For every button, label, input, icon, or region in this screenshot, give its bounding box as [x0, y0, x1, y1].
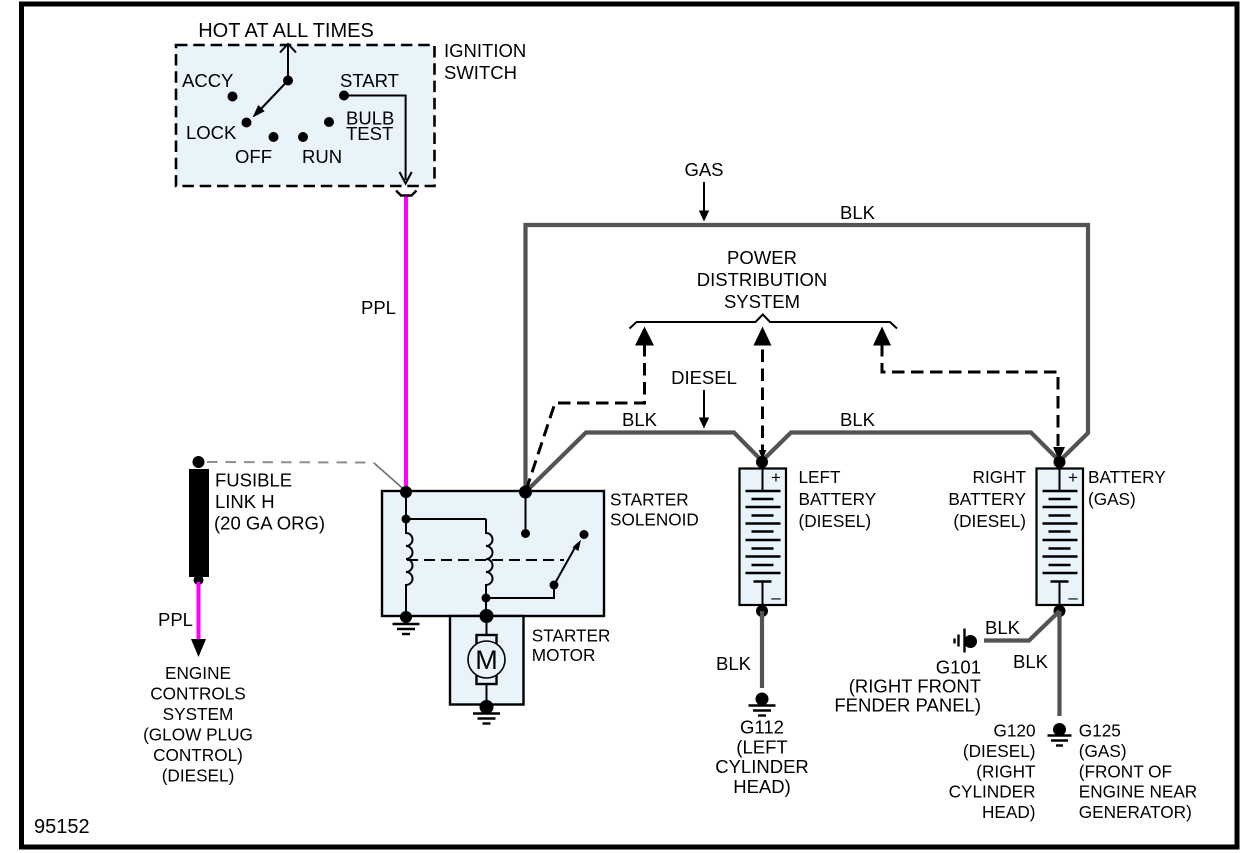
wire PPL to engine controls [197, 582, 201, 640]
svg-text:(FRONT OF: (FRONT OF [1079, 761, 1172, 781]
svg-text:BATTERY: BATTERY [799, 489, 877, 509]
svg-text:(DIESEL): (DIESEL) [953, 511, 1026, 531]
svg-text:G101: G101 [936, 657, 981, 678]
node BULB TEST [324, 117, 334, 127]
battery right gas [1037, 468, 1084, 607]
wire left battery ground [760, 611, 764, 688]
node coil junction [482, 594, 491, 603]
wire switch to motor [486, 585, 554, 598]
node START [339, 91, 349, 101]
svg-text:(GAS): (GAS) [1079, 741, 1127, 761]
svg-text:(DIESEL): (DIESEL) [162, 766, 235, 786]
svg-text:MOTOR: MOTOR [532, 645, 596, 665]
svg-text:POWER: POWER [727, 247, 797, 268]
wire dashed right battery to power distribution [873, 327, 891, 346]
svg-text:(DIESEL): (DIESEL) [799, 511, 872, 531]
node ACCY [228, 92, 238, 102]
node battery stub end [521, 529, 530, 538]
svg-text:RIGHT: RIGHT [973, 467, 1027, 487]
linkage dashed [407, 559, 564, 561]
node RUN [298, 132, 308, 142]
wire motor to ground [486, 684, 488, 704]
svg-text:IGNITION: IGNITION [444, 40, 526, 61]
svg-text:ENGINE: ENGINE [165, 663, 231, 683]
wire dashed gray link [207, 461, 374, 464]
svg-text:SOLENOID: SOLENOID [610, 510, 699, 530]
connector cup [396, 191, 417, 196]
node right battery + [1054, 456, 1066, 468]
svg-text:TEST: TEST [346, 123, 393, 144]
svg-text:CONTROL): CONTROL) [153, 745, 243, 765]
wire battery stub [525, 492, 527, 534]
svg-text:BLK: BLK [840, 202, 876, 223]
ground G125 [1053, 723, 1066, 736]
wire dashed solenoid to power distribution [635, 327, 654, 346]
node left battery + [756, 456, 768, 468]
ground G101 [964, 635, 977, 648]
wire DIESEL pointer arrow [703, 390, 705, 419]
svg-text:+: + [771, 468, 781, 487]
svg-text:BLK: BLK [716, 653, 752, 674]
motor M circle [468, 641, 505, 678]
svg-text:(RIGHT FRONT: (RIGHT FRONT [849, 676, 981, 697]
svg-text:FUSIBLE: FUSIBLE [215, 470, 292, 491]
svg-text:G120: G120 [993, 721, 1035, 741]
svg-text:BATTERY: BATTERY [948, 489, 1026, 509]
switch arm [554, 544, 577, 585]
battery left diesel [740, 468, 787, 607]
svg-text:G112: G112 [740, 717, 784, 738]
wire coil feed [405, 492, 407, 519]
svg-text:DISTRIBUTION: DISTRIBUTION [697, 269, 828, 290]
svg-text:(RIGHT: (RIGHT [976, 761, 1036, 781]
svg-text:SWITCH: SWITCH [444, 62, 517, 83]
inductor hold-in coil [486, 519, 493, 598]
wire BLK gas battery feed [526, 225, 1089, 492]
brace power distribution [630, 315, 898, 329]
svg-text:SYSTEM: SYSTEM [163, 704, 234, 724]
motor armature rect [477, 635, 497, 684]
node right battery - [1054, 605, 1066, 617]
inductor pull-in coil [406, 519, 413, 617]
svg-text:GENERATOR): GENERATOR) [1079, 802, 1192, 822]
ground G112 [756, 693, 769, 706]
svg-text:M: M [475, 645, 498, 675]
node LOCK [242, 118, 252, 128]
wire START output [344, 96, 406, 181]
svg-text:LINK H: LINK H [215, 491, 275, 512]
wire coil bridge [406, 518, 486, 520]
svg-text:FENDER PANEL): FENDER PANEL) [834, 695, 981, 716]
node left battery - [756, 605, 768, 617]
ground solenoid coil [393, 623, 420, 625]
svg-text:(LEFT: (LEFT [736, 736, 787, 757]
node coil ground [400, 611, 412, 623]
svg-text:BLK: BLK [1013, 651, 1049, 672]
node OFF [269, 132, 279, 142]
wire GAS pointer arrow [703, 182, 705, 212]
svg-text:+: + [1068, 468, 1078, 487]
svg-text:LOCK: LOCK [186, 122, 237, 143]
svg-text:SYSTEM: SYSTEM [724, 291, 800, 312]
wire dashed left battery to power distribution [754, 327, 772, 346]
svg-text:STARTER: STARTER [532, 625, 611, 645]
svg-text:CONTROLS: CONTROLS [150, 684, 246, 704]
wire PPL ignition to solenoid [404, 197, 408, 493]
svg-text:HOT AT ALL TIMES: HOT AT ALL TIMES [198, 20, 374, 42]
svg-text:BLK: BLK [985, 617, 1021, 638]
svg-text:DIESEL: DIESEL [671, 367, 737, 388]
svg-text:CYLINDER: CYLINDER [949, 782, 1036, 802]
node solenoid PPL input [400, 486, 412, 498]
svg-text:(GLOW PLUG: (GLOW PLUG [143, 725, 253, 745]
svg-text:BATTERY: BATTERY [1088, 467, 1166, 487]
svg-text:LEFT: LEFT [799, 467, 842, 487]
svg-text:STARTER: STARTER [610, 490, 689, 510]
svg-text:START: START [340, 70, 399, 91]
ignition switch box [176, 45, 435, 186]
svg-text:G125: G125 [1079, 721, 1121, 741]
svg-text:BLK: BLK [622, 409, 658, 430]
wire motor feed [486, 616, 488, 636]
svg-text:HEAD): HEAD) [733, 776, 791, 797]
svg-text:(GAS): (GAS) [1088, 489, 1136, 509]
wire switch wiper arrow [258, 81, 288, 113]
wire hot feed arrow [287, 45, 289, 81]
svg-text:RUN: RUN [302, 146, 342, 167]
svg-text:95152: 95152 [34, 816, 90, 838]
node battery input [519, 486, 532, 499]
starter solenoid box [382, 491, 604, 616]
node switch contact [580, 530, 589, 539]
node wiper pivot [283, 76, 293, 86]
wire right battery to G101 [984, 611, 1060, 641]
node switch pivot [550, 581, 559, 590]
starter motor box [450, 616, 524, 705]
svg-text:–: – [1068, 588, 1078, 607]
svg-text:ACCY: ACCY [182, 70, 233, 91]
svg-text:(DIESEL): (DIESEL) [963, 741, 1036, 761]
wire to motor node [485, 598, 487, 616]
wire BLK diesel battery feed [526, 433, 1060, 493]
node coil top [402, 515, 411, 524]
svg-text:HEAD): HEAD) [982, 802, 1035, 822]
fusible link H [193, 456, 205, 468]
node motor input [480, 609, 494, 623]
svg-text:GAS: GAS [684, 159, 723, 180]
svg-text:PPL: PPL [361, 297, 396, 318]
svg-text:BLK: BLK [840, 409, 876, 430]
wire right battery to G125 [1057, 611, 1061, 716]
ground starter motor [473, 712, 500, 714]
svg-text:OFF: OFF [235, 146, 272, 167]
svg-text:ENGINE NEAR: ENGINE NEAR [1079, 782, 1197, 802]
svg-text:CYLINDER: CYLINDER [715, 756, 809, 777]
svg-text:PPL: PPL [158, 609, 193, 630]
svg-text:–: – [771, 588, 781, 607]
node motor ground [480, 700, 494, 714]
svg-text:(20 GA ORG): (20 GA ORG) [214, 513, 325, 534]
